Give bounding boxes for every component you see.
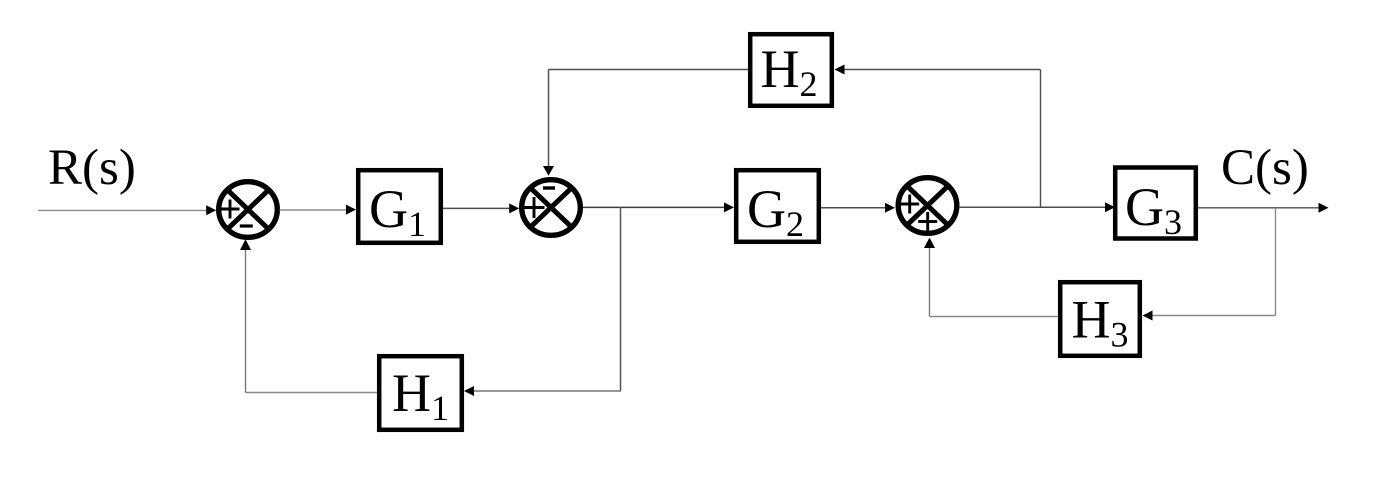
block G1 — [358, 170, 441, 243]
wire H1 left segment — [246, 392, 378, 394]
block H2 — [750, 34, 832, 106]
wire H1 feedback up into S1 bottom — [245, 248, 247, 393]
block G2 — [736, 170, 819, 242]
arrowhead into G3 — [1105, 202, 1115, 212]
wire block G2 to summer S3 — [821, 207, 886, 209]
wire H1 feedback right segment — [474, 390, 621, 392]
arrowhead into summer S1 left — [206, 205, 216, 215]
wire H3 left segment — [930, 316, 1059, 318]
arrowhead into summer S3 left — [885, 203, 895, 213]
wire summer S2 to block G2 — [583, 206, 725, 208]
block H3 — [1060, 282, 1140, 356]
wire H3 feedback up into S3 bottom — [929, 246, 931, 317]
wire H2 feedback down into S2 top — [548, 70, 550, 168]
wire takeoff node after S2 down to H1 level — [620, 207, 622, 391]
summing junction S3 — [898, 178, 957, 234]
arrowhead into G2 — [724, 202, 734, 212]
arrowhead into H1 right — [464, 386, 474, 396]
S1 minus sign — [240, 224, 253, 227]
arrowhead into S3 bottom — [924, 238, 935, 249]
arrowhead into S2 top — [543, 166, 554, 176]
wire block G3 to output C(s) — [1198, 207, 1319, 209]
wire input R(s) to summer S1 — [38, 209, 207, 211]
wire takeoff node before G3 up to H2 level — [1040, 70, 1042, 208]
S1 plus sign — [221, 200, 240, 219]
block G3 — [1115, 168, 1196, 239]
S3 plus sign left — [900, 195, 919, 214]
S3 plus sign bottom — [918, 212, 937, 231]
block H1 — [379, 356, 462, 430]
S2 minus sign — [543, 186, 555, 189]
summing junction S1 — [219, 182, 278, 238]
arrowhead output — [1319, 203, 1329, 213]
svg-text:C(s): C(s) — [1221, 140, 1309, 196]
arrowhead into G1 — [346, 205, 356, 215]
arrowhead into S1 bottom — [240, 239, 251, 250]
wire H2 left segment — [549, 69, 749, 71]
arrowhead into summer S2 left — [509, 203, 519, 213]
wire block G1 to summer S2 — [443, 207, 510, 209]
summing junction S2 — [522, 180, 581, 236]
wire summer S3 to block G3 — [959, 206, 1106, 208]
wire takeoff node after G3 down to H3 level — [1275, 208, 1277, 316]
svg-text:R(s): R(s) — [48, 140, 136, 196]
wire summer S1 to block G1 — [280, 209, 348, 211]
arrowhead into H3 right — [1143, 311, 1153, 321]
arrowhead into H2 right — [835, 65, 845, 75]
S2 plus sign — [524, 197, 545, 218]
wire H2 feedback right segment — [845, 69, 1041, 71]
wire H3 feedback right segment — [1153, 315, 1276, 317]
